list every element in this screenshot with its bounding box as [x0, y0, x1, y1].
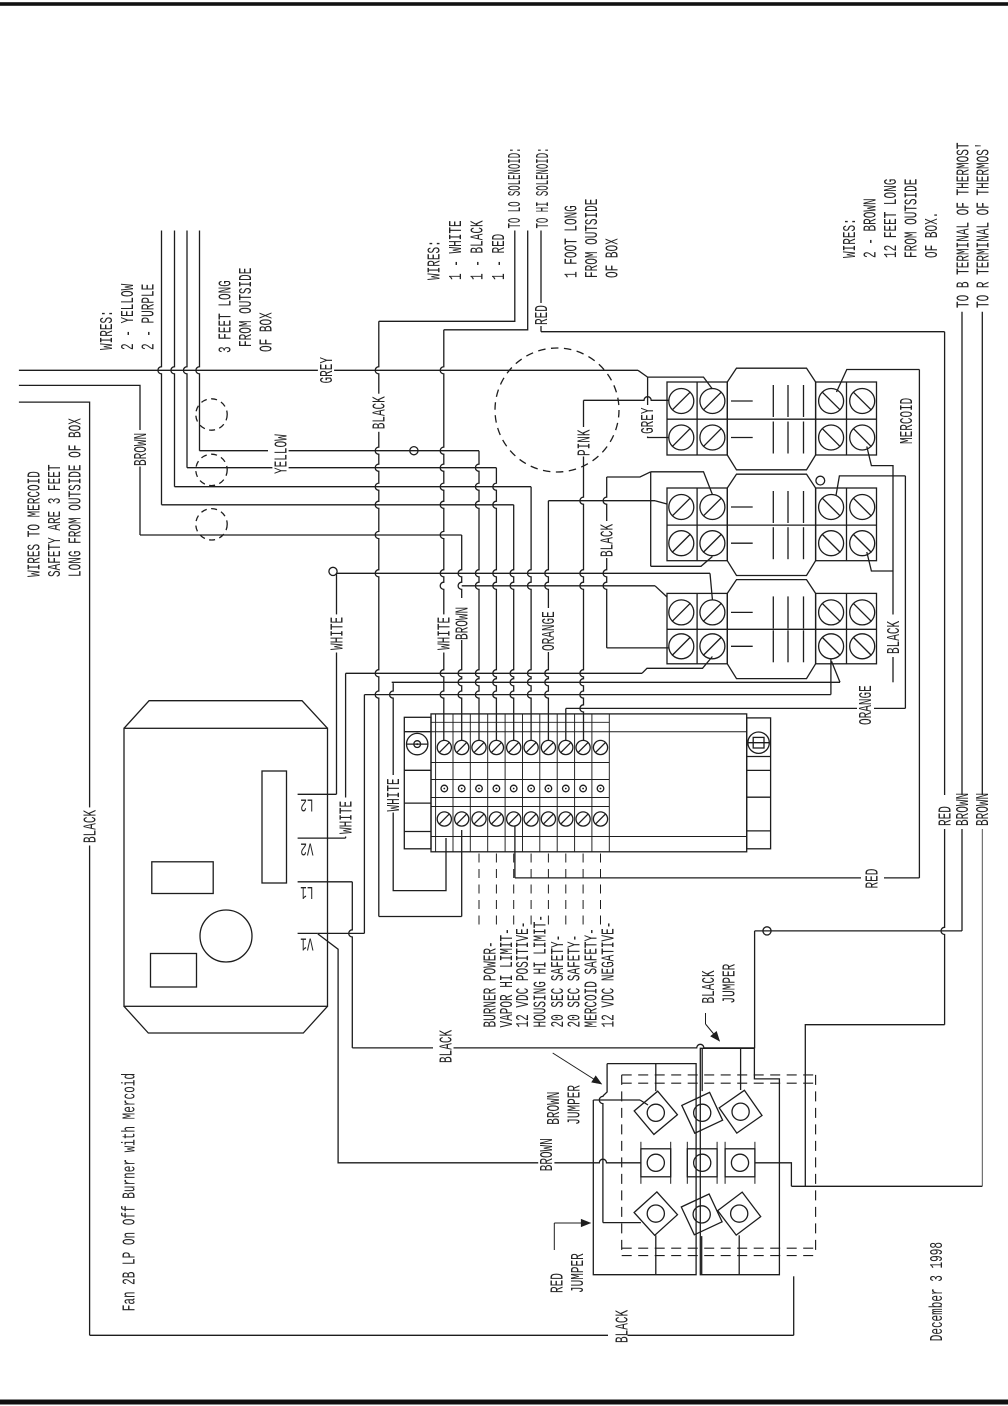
label BLACK far-left: [81, 807, 101, 845]
svg-text:WIRES:: WIRES:: [425, 240, 445, 280]
label BLACK corridor: [598, 524, 618, 557]
svg-text:TO LO SOLENOID:: TO LO SOLENOID:: [505, 148, 525, 229]
relay MERCOID 1: [667, 368, 877, 470]
terminal L2: [298, 794, 337, 814]
label 3 FEET LONG FROM OUTSIDE OF BOX: [216, 268, 277, 353]
label BROWN col1: [953, 793, 973, 826]
wire BLACK far-left long: [19, 402, 90, 1335]
burner square r2c2: [687, 1142, 717, 1184]
wire RED relay1 to strip: [515, 370, 920, 878]
svg-text:BROWN: BROWN: [953, 793, 973, 826]
svg-text:WIRES TO MERCOID: WIRES TO MERCOID: [25, 471, 45, 577]
wire strip screw6 vertical: [527, 487, 531, 741]
svg-text:MERCOID: MERCOID: [897, 398, 917, 444]
label BROWN strip: [453, 607, 473, 640]
dashed circle small 3: [196, 509, 227, 540]
svg-text:1 FOOT LONG: 1 FOOT LONG: [562, 205, 582, 278]
svg-text:TO HI SOLENOID:: TO HI SOLENOID:: [533, 148, 553, 229]
svg-text:1 - BLACK: 1 - BLACK: [468, 220, 488, 280]
arrow brown jumper: [553, 1053, 602, 1084]
bus1 L2 white: [329, 567, 713, 599]
burner square r2c1: [641, 1142, 671, 1184]
svg-text:BROWN: BROWN: [131, 433, 151, 466]
wire ORANGE relay2 screw5 loop: [566, 476, 906, 741]
control box inner tall rect: [262, 771, 287, 883]
svg-text:12 VDC NEGATIVE-: 12 VDC NEGATIVE-: [599, 922, 619, 1028]
dashed circle small 2: [196, 454, 227, 485]
svg-text:Fan 2B LP On Off Burner with M: Fan 2B LP On Off Burner with Mercoid: [120, 1073, 140, 1311]
wire RED enclosure right: [805, 332, 944, 1187]
label WIRES: 1-WHITE 1-BLACK 1-RED: [425, 220, 510, 280]
wire WHITE strip screw1 bottom: [390, 683, 446, 891]
strip terminal labels: [481, 915, 620, 1028]
burner diamond r3c1: [634, 1192, 677, 1235]
terminal L1: [298, 881, 353, 901]
svg-text:BLACK: BLACK: [81, 810, 101, 843]
wire brown into left square: [591, 1159, 641, 1163]
wire TO B THERMOSTAT: [755, 312, 962, 1049]
wire strip screw3 vertical: [475, 451, 479, 741]
svg-text:TO B TERMINAL OF THERMOST: TO B TERMINAL OF THERMOST: [954, 142, 974, 308]
wire BROWN strip: [458, 535, 462, 741]
label WHITE L2: [328, 614, 348, 652]
svg-text:GREY: GREY: [317, 357, 337, 384]
burner square r2c3: [725, 1142, 755, 1184]
burner left module: [593, 1064, 696, 1275]
page top border: [0, 2, 1008, 6]
wire C red solenoid: [541, 231, 945, 332]
svg-text:V1: V1: [300, 933, 313, 953]
label PINK: [575, 429, 595, 456]
svg-text:LONG FROM OUTSIDE OF BOX: LONG FROM OUTSIDE OF BOX: [66, 418, 86, 577]
label WIRES: 2-YELLOW 2-PURPLE: [97, 284, 159, 350]
svg-text:OF BOX.: OF BOX.: [922, 212, 942, 258]
arrow red jumper: [554, 1219, 590, 1250]
label YELLOW: [272, 432, 292, 477]
svg-text:WIRES:: WIRES:: [840, 218, 860, 258]
dashed circle large: [495, 348, 619, 472]
burner diamond r1c2: [682, 1092, 723, 1133]
label BROWN jumper-wire: [537, 1136, 557, 1174]
svg-text:WHITE: WHITE: [384, 778, 404, 811]
svg-text:2 - PURPLE: 2 - PURPLE: [139, 284, 159, 350]
label BLACK right: [884, 621, 904, 654]
wire yellow/purple supply x=161.5: [158, 231, 162, 505]
label BLACK JUMPER: [699, 964, 740, 1004]
burner dashed rect: [622, 1075, 816, 1256]
svg-text:SAFETY ARE 3 FEET: SAFETY ARE 3 FEET: [45, 464, 65, 577]
control box small rect 2: [151, 954, 197, 988]
svg-text:December 3 1998: December 3 1998: [927, 1242, 947, 1341]
label WIRES: 2 - BROWN 12 FEET LONG FROM OUTSIDE OF BOX.: [840, 179, 942, 258]
svg-text:WHITE: WHITE: [337, 801, 357, 834]
bus3 V2 white: [346, 657, 713, 674]
label RED wireC: [532, 305, 552, 325]
wire V1 branch east: [318, 695, 365, 934]
svg-text:TO R TERMINAL OF THERMOS': TO R TERMINAL OF THERMOS': [974, 142, 994, 308]
label GREY: [317, 355, 337, 387]
burner stems row3: [656, 1235, 739, 1274]
wire yellow4 horizontal: [162, 504, 514, 506]
svg-text:1 - RED: 1 - RED: [489, 234, 509, 280]
title December 3 1998: [927, 1242, 947, 1341]
label TO B TERMINAL OF THERMOST: [954, 142, 974, 308]
page bottom border: [0, 1400, 1008, 1405]
label TO HI SOLENOID: [533, 148, 553, 229]
burner right module: [700, 1048, 779, 1274]
svg-text:FROM OUTSIDE: FROM OUTSIDE: [582, 199, 602, 278]
svg-text:RED: RED: [532, 305, 552, 325]
svg-text:BLACK: BLACK: [699, 970, 719, 1003]
burner diamond r3c2: [681, 1194, 722, 1235]
burner diamond r1c1: [634, 1091, 677, 1134]
label BROWN col2: [973, 793, 993, 826]
label BLACK burner wire: [437, 1030, 457, 1063]
wire PINK: [580, 397, 669, 741]
svg-text:12 FEET LONG: 12 FEET LONG: [881, 179, 901, 258]
control box outline: [124, 701, 328, 1033]
wire BLACK corridor: [603, 472, 668, 648]
wire GREY bracket: [648, 377, 713, 437]
bus5 V1: [364, 659, 831, 695]
wire B white solenoid: [440, 231, 528, 741]
svg-text:L2: L2: [300, 794, 313, 814]
wire V2 white up: [345, 673, 347, 838]
label TO R TERMINAL OF THERMOS: [974, 142, 994, 308]
svg-text:OF BOX: OF BOX: [603, 238, 623, 278]
wire right square east: [755, 1163, 792, 1187]
label ORANGE right: [856, 685, 876, 725]
svg-text:GREY: GREY: [639, 407, 659, 434]
wire yellow/purple supply x=199.5: [196, 231, 200, 451]
dashed circle small 1: [196, 399, 227, 430]
svg-text:WIRES:: WIRES:: [97, 310, 117, 350]
svg-text:RED: RED: [863, 869, 883, 889]
terminal V1: [298, 933, 318, 953]
wire ORANGE strip screw7: [545, 501, 667, 741]
wire yellow/purple supply x=187.0: [183, 231, 187, 468]
wire yellow1 horizontal: [200, 447, 480, 455]
wire top-left diamond feed: [593, 1100, 648, 1105]
svg-text:ORANGE: ORANGE: [856, 685, 876, 725]
junction circle relay2: [816, 476, 825, 485]
bus4 white neutral relay3: [392, 661, 840, 682]
wire L1 down to black: [349, 882, 353, 1048]
svg-text:BLACK: BLACK: [598, 524, 618, 557]
bus2 brown: [462, 586, 667, 597]
control box small rect 1: [152, 862, 213, 894]
svg-text:BLACK: BLACK: [370, 396, 390, 429]
label WIRES TO MERCOID SAFETY ARE 3 FEET LONG FROM OUTSIDE OF BOX: [25, 418, 86, 577]
label GREY bracket: [639, 405, 659, 437]
wire A black solenoid: [375, 231, 515, 917]
wire V1 branch diagonal: [318, 934, 591, 1163]
svg-text:2 - YELLOW: 2 - YELLOW: [118, 284, 138, 350]
wire bracket relay2: [651, 472, 713, 567]
burner diamond r1c3: [719, 1090, 762, 1133]
burner stems row1: [656, 1048, 741, 1091]
label RED mid: [863, 869, 883, 889]
svg-text:BROWN: BROWN: [973, 793, 993, 826]
relay 3: [667, 580, 877, 679]
strip leader dashed lines: [479, 854, 601, 929]
wire strip screw4 vertical: [493, 468, 497, 741]
label WHITE wireB: [435, 614, 455, 652]
label RED JUMPER: [548, 1253, 589, 1293]
svg-text:FROM OUTSIDE: FROM OUTSIDE: [902, 179, 922, 258]
wire L2 white up: [336, 573, 338, 794]
wire BLACK L1 burner: [352, 1044, 754, 1048]
svg-text:WHITE: WHITE: [328, 617, 348, 650]
wire BLACK relay1-relay2-relay3: [867, 447, 893, 683]
svg-text:ORANGE: ORANGE: [540, 611, 560, 651]
svg-text:JUMPER: JUMPER: [720, 964, 740, 1004]
terminal strip: [404, 714, 770, 852]
label BLACK bottom: [613, 1310, 633, 1343]
wire yellow/purple supply x=174.5: [171, 231, 175, 487]
label BROWN left: [131, 433, 151, 466]
wire yellow2 horizontal: [187, 467, 496, 469]
label 1 FOOT LONG FROM OUTSIDE OF BOX: [562, 199, 623, 278]
wire strip screw5 vertical: [510, 505, 514, 741]
wire black bottom long: [90, 1276, 794, 1335]
svg-text:RED: RED: [548, 1273, 568, 1293]
label BROWN JUMPER: [544, 1085, 585, 1125]
label BLACK wireA: [370, 394, 390, 432]
label MERCOID: [897, 398, 917, 444]
svg-text:BLACK: BLACK: [437, 1030, 457, 1063]
label ORANGE strip: [540, 611, 560, 651]
arrow black jumper: [706, 1013, 720, 1041]
svg-text:OF BOX: OF BOX: [257, 312, 277, 352]
svg-text:BLACK: BLACK: [613, 1310, 633, 1343]
svg-text:L1: L1: [300, 881, 313, 901]
svg-text:YELLOW: YELLOW: [272, 434, 292, 474]
svg-text:3 FEET LONG: 3 FEET LONG: [216, 280, 236, 353]
wire GREY horizontal: [19, 370, 648, 377]
wire yellow3 horizontal: [175, 486, 532, 488]
wire BROWN from left: [19, 385, 462, 535]
svg-text:BROWN: BROWN: [544, 1092, 564, 1125]
svg-text:1 - WHITE: 1 - WHITE: [446, 220, 466, 280]
svg-text:2 - BROWN: 2 - BROWN: [861, 198, 881, 258]
relay 2: [667, 474, 877, 575]
svg-text:PINK: PINK: [575, 429, 595, 456]
svg-text:BLACK: BLACK: [884, 621, 904, 654]
svg-text:BROWN: BROWN: [537, 1138, 557, 1171]
svg-text:BROWN: BROWN: [453, 607, 473, 640]
svg-text:V2: V2: [300, 838, 313, 858]
svg-text:JUMPER: JUMPER: [565, 1085, 585, 1125]
svg-text:JUMPER: JUMPER: [568, 1253, 588, 1293]
burner diamond r3c3: [718, 1192, 761, 1235]
svg-text:FROM OUTSIDE: FROM OUTSIDE: [236, 268, 256, 347]
label TO LO SOLENOID: [505, 148, 525, 229]
label WHITE strip-left: [384, 778, 404, 811]
wire TO R THERMOSTAT: [791, 312, 982, 1187]
label RED right col: [936, 806, 956, 826]
terminal V2: [298, 838, 346, 858]
title Fan 2B LP On Off Burner with Mercoid: [120, 1073, 140, 1311]
label WHITE V2: [337, 798, 357, 836]
control box circle: [200, 910, 252, 962]
